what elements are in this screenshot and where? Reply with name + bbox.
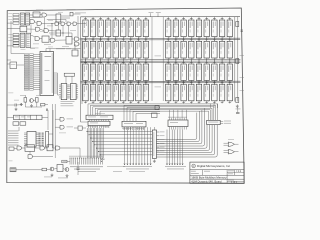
field text scale (228, 169, 234, 172)
bus wire band A (81, 39, 241, 41)
input net label ADR1 (13, 36, 19, 38)
wire (16, 169, 42, 171)
capacitor C21 (236, 112, 240, 114)
DRAM chip U49 (189, 64, 194, 80)
net labels left edge (8, 12, 12, 15)
DRAM chip U40 (105, 64, 110, 80)
wire (51, 24, 53, 39)
wire pin stub (190, 17, 192, 20)
wire (74, 127, 78, 129)
junction node (191, 82, 192, 83)
DRAM chip U45 (143, 64, 148, 80)
net label left margin (9, 160, 13, 163)
wire bundle to J1 (87, 128, 89, 158)
DRAM chip U22 (105, 41, 110, 58)
DRAM chip U46 (166, 64, 171, 80)
wire pin stub (76, 95, 78, 97)
wire (30, 16, 42, 18)
input net label ADR4 (13, 45, 19, 47)
gate U41B (51, 38, 55, 42)
net label above gates (228, 138, 234, 141)
wire (40, 38, 43, 40)
junction node (175, 59, 176, 60)
DRAM chip U55 (83, 84, 88, 101)
pin number label (215, 80, 216, 83)
DRAM chip U21 (98, 41, 103, 58)
pin number label (109, 58, 110, 61)
wire pin stub (100, 17, 102, 20)
gate U74A (155, 106, 159, 110)
wire (49, 30, 57, 32)
net label (21, 48, 26, 51)
wire (7, 45, 13, 47)
DRAM chip U12 (181, 20, 186, 37)
termination resistor tick (190, 61, 193, 63)
net label (62, 45, 69, 48)
wire (150, 13, 152, 17)
termination resistor tick (145, 39, 148, 41)
junction node (175, 82, 176, 83)
wire (49, 49, 51, 52)
pin number label (147, 80, 148, 83)
one-shot U81 (25, 145, 35, 152)
title block row divider (190, 169, 244, 171)
wire (77, 23, 86, 25)
wire pin stub (229, 17, 231, 20)
wire pin stub (130, 81, 132, 84)
capacitor C2 (46, 109, 48, 112)
title block column divider (202, 170, 204, 176)
wire (35, 147, 41, 149)
junction node (123, 82, 124, 83)
wire pin stub (190, 58, 192, 63)
wire pin stubs U71 bottom (88, 126, 90, 129)
wire pin stub (59, 88, 61, 90)
wire pin stub (213, 58, 215, 63)
wire pin stub (229, 81, 231, 84)
wire pin stub (85, 61, 87, 64)
wire pin stub (190, 80, 192, 85)
wire pin stub (76, 86, 78, 88)
wire pin stub (122, 81, 124, 84)
junction node (168, 38, 169, 39)
wire pin stub (137, 17, 139, 20)
caption address comb (126, 168, 149, 171)
wire pin stub (68, 86, 70, 88)
wire pin stub (183, 81, 185, 84)
wire pin stub (229, 61, 231, 64)
diode CR1 (20, 103, 23, 106)
wire pin stub (76, 91, 78, 93)
input net label ADR3 (13, 42, 19, 44)
junction node (206, 59, 207, 60)
wire (61, 17, 71, 19)
or-gate U90B (228, 150, 235, 155)
wire pin stub (167, 38, 169, 41)
flip-flop U82 (47, 145, 53, 151)
input net label BPRN (13, 16, 19, 18)
wire pin stub (122, 38, 124, 41)
pin number label (200, 58, 201, 61)
pin number label (101, 36, 102, 39)
wire pin stub (221, 81, 223, 84)
nested address bus corner wires U70 to U75 (88, 104, 217, 120)
wire (40, 14, 42, 16)
DRAM chip U71 (219, 84, 224, 101)
junction node (115, 38, 116, 39)
small box E5 (152, 113, 158, 118)
wire pin stub (137, 81, 139, 84)
pin number label (139, 36, 140, 39)
wire pin stub (68, 88, 70, 90)
wire (55, 126, 60, 128)
DRAM chip U33 (204, 41, 209, 58)
wire pin stub (145, 101, 147, 104)
pin number label (124, 80, 125, 83)
wire pin stub (68, 95, 70, 97)
wire pin stub (36, 137, 39, 139)
wire (42, 22, 56, 24)
wire pin stub (213, 37, 215, 42)
junction node (108, 59, 109, 60)
wire pin stub (59, 91, 61, 93)
net label BANK0 in gap (155, 55, 162, 58)
wire (36, 102, 38, 107)
DRAM chip U51 (204, 64, 209, 80)
DRAM chip U10 (166, 20, 171, 37)
comparator U42 (42, 36, 49, 42)
wire (26, 32, 28, 33)
termination resistor tick (213, 17, 216, 19)
termination resistor tick (107, 61, 110, 63)
net label CAS (44, 43, 51, 46)
DRAM chip U11 (173, 20, 178, 37)
address buffer U40 (26, 33, 31, 47)
title block column divider (226, 170, 228, 184)
DRAM chip U34 (212, 41, 217, 58)
wire (7, 63, 10, 65)
termination resistor tick (190, 82, 193, 84)
termination resistor tick (190, 39, 193, 41)
wire pin stub (213, 101, 215, 104)
wire (49, 39, 51, 40)
wire (185, 161, 190, 163)
DRAM chip U57 (98, 84, 103, 101)
junction node (115, 82, 116, 83)
DRAM chip U2 (90, 20, 95, 37)
termination resistor tick (182, 17, 185, 19)
wire pin stub (183, 38, 185, 41)
net label (66, 48, 71, 51)
wire pin stub (198, 58, 200, 63)
sheet text (228, 179, 234, 182)
wire pin stub (67, 84, 69, 86)
row buffer U71 (88, 121, 110, 125)
wire pin stub (107, 38, 109, 41)
wire (61, 15, 70, 17)
caption wire list (107, 165, 125, 168)
termination resistor tick (122, 17, 125, 19)
wire (7, 104, 15, 106)
junction node (175, 38, 176, 39)
termination resistor tick (167, 17, 170, 19)
junction node (62, 32, 63, 33)
wire (45, 147, 48, 149)
wire pin stub (85, 81, 87, 84)
net label column for U50 pins (24, 54, 29, 56)
wire (33, 99, 35, 102)
wire pin stub (229, 37, 231, 42)
wire (65, 76, 67, 83)
wire (224, 152, 229, 154)
junction node (183, 38, 184, 39)
node +5V label (236, 108, 241, 111)
DRAM chip U59 (113, 84, 118, 101)
latch U36 (20, 26, 27, 32)
wire pin stub (100, 81, 102, 84)
pin number label (132, 80, 133, 83)
pin number label (147, 36, 148, 39)
wire pin stub (92, 61, 94, 64)
wire pin stub (92, 81, 94, 84)
wire pin stub (85, 17, 87, 20)
wire (81, 121, 88, 123)
wire (71, 76, 73, 83)
termination resistor tick (107, 17, 110, 19)
wire (71, 33, 73, 37)
wire pin stub (206, 80, 208, 85)
junction node (108, 82, 109, 83)
wire pin stub (76, 90, 78, 92)
+5V power rail wire (81, 16, 241, 18)
wire pin stub (36, 139, 39, 141)
net label text under buffers (61, 100, 75, 103)
wire pin stub (145, 17, 147, 20)
svg-text:= 1:1: = 1:1 (236, 171, 242, 173)
wire pin stub (167, 17, 169, 20)
pin number label (86, 100, 87, 103)
wire pin stub (68, 97, 70, 99)
node +5V label (149, 11, 154, 14)
wire pin stub (92, 58, 94, 63)
wire (42, 116, 48, 118)
pin number label (124, 100, 125, 103)
DRAM chip U38 (90, 64, 95, 80)
bus wire band B (81, 59, 241, 61)
wire (77, 162, 79, 168)
termination resistor tick (129, 17, 132, 19)
wire (47, 19, 66, 21)
junction node (214, 38, 215, 39)
termination resistor tick (114, 39, 117, 41)
bus receiver U30 (20, 13, 24, 25)
memory controller U50 (40, 52, 54, 96)
wire pin stub (115, 38, 117, 41)
pin number label (147, 58, 148, 61)
resistor R2 (36, 98, 39, 103)
pin number label (94, 58, 95, 61)
wire (62, 25, 64, 36)
pin number label (94, 100, 95, 103)
termination resistor tick (92, 82, 95, 84)
pin number label (101, 100, 102, 103)
svg-text:4164 Dynamic 64K, Board: 4164 Dynamic 64K, Board (191, 180, 222, 184)
junction node (93, 82, 94, 83)
small box E6 (78, 126, 82, 130)
jumper block W1 (64, 73, 74, 76)
net label (70, 29, 76, 32)
wire (157, 13, 159, 17)
pin number label (177, 80, 178, 83)
wire pin stub (130, 80, 132, 85)
termination resistor tick (221, 82, 224, 84)
wire pin stub (36, 141, 39, 143)
termination resistor tick (145, 61, 148, 63)
net label OSC (67, 8, 76, 11)
wire pin stubs U73 top (169, 110, 171, 121)
net label (44, 176, 52, 179)
wire pin stub (206, 81, 208, 84)
input net label ADR0 (13, 34, 19, 36)
wire (25, 14, 34, 16)
termination resistor tick (145, 82, 148, 84)
wire pin stub (67, 90, 69, 92)
wire (31, 35, 35, 37)
wire pin stub (145, 37, 147, 42)
multiplexer U73 (168, 120, 188, 127)
resistor pack RP2 (46, 132, 49, 148)
wire pin stub (85, 37, 87, 42)
wire pin stub (190, 38, 192, 41)
pin number label (116, 80, 117, 83)
wire pin stub (115, 37, 117, 42)
wire pin stub (167, 37, 169, 42)
pin number label (101, 80, 102, 83)
wire pin stub (183, 37, 185, 42)
junction node (145, 59, 146, 60)
pin number label (109, 36, 110, 39)
pin number label (200, 100, 201, 103)
wire pin stub (76, 97, 78, 99)
resistor R10 (236, 98, 239, 103)
net label under buffer gates (59, 132, 66, 135)
pin number label (184, 36, 185, 39)
wire pin stub (167, 61, 169, 64)
net label (50, 34, 56, 37)
wire pin stub (198, 61, 200, 64)
pin number label (132, 58, 133, 61)
DRAM chip U52 (212, 64, 217, 80)
flip-flop U33 (56, 14, 61, 22)
wire U50 right pins (54, 72, 58, 74)
wire pin stub (122, 37, 124, 42)
gate U44A (75, 37, 79, 41)
net label (36, 94, 41, 97)
DRAM chip U31 (189, 41, 194, 58)
junction node (229, 38, 230, 39)
wire (30, 25, 32, 34)
ground (31, 104, 33, 106)
delay line DL2 (14, 115, 43, 119)
pin number label (139, 80, 140, 83)
wire pin stub (67, 86, 69, 88)
wire pin stub (59, 93, 61, 95)
wire pin stub (206, 17, 208, 20)
termination resistor tick (228, 17, 231, 19)
wire pin stub (36, 132, 39, 134)
wire (59, 23, 61, 25)
data comb wires (166, 130, 168, 166)
ground (236, 105, 238, 107)
net label (36, 9, 43, 12)
wire (25, 106, 42, 108)
wire pin stub (100, 38, 102, 41)
termination resistor tick (129, 39, 132, 41)
junction node (145, 82, 146, 83)
DRAM chip U1 (83, 20, 88, 37)
box E2 (20, 122, 26, 125)
junction node (138, 82, 139, 83)
DRAM chip U28 (166, 41, 171, 58)
wire pin stub (85, 101, 87, 104)
junction node (123, 38, 124, 39)
wire (55, 39, 66, 41)
transistor Q2 (50, 167, 54, 171)
connector J1 pin comb (69, 158, 71, 165)
wire pin stubs DL1 right (157, 131, 160, 133)
nested corner wires to U72 (124, 106, 160, 122)
net labels under U71 (87, 125, 98, 128)
wire pin stub (92, 101, 94, 104)
wire pin stub (76, 88, 78, 90)
termination resistor tick (221, 39, 224, 41)
field text CHK (204, 170, 210, 173)
pin number label (192, 100, 193, 103)
crystal X1 (70, 12, 73, 16)
junction node (214, 82, 215, 83)
wire pin stub (221, 101, 223, 104)
field text DWN (191, 170, 196, 173)
gate U34B (37, 21, 41, 25)
wire pin stub (183, 101, 185, 104)
wire (47, 14, 56, 16)
termination resistor tick (205, 82, 208, 84)
junction node (100, 59, 101, 60)
wire (73, 13, 81, 15)
crystal filter symbol (11, 169, 16, 172)
wire pin stub (175, 101, 177, 104)
wire pin stub (130, 61, 132, 64)
wire pin stub (198, 81, 200, 84)
DRAM chip U37 (83, 64, 88, 80)
termination resistor tick (213, 61, 216, 63)
wire pin stubs U72 bottom (123, 127, 125, 130)
wire (7, 116, 13, 118)
wire pin stub (183, 58, 185, 63)
termination resistor tick (92, 17, 95, 19)
pin number label (177, 100, 178, 103)
pin number label (169, 100, 170, 103)
termination resistor tick (122, 39, 125, 41)
pin number label (86, 36, 87, 39)
termination resistor tick (228, 61, 231, 63)
wire pin stub (24, 139, 27, 141)
wire (27, 28, 36, 30)
wire pin stub (76, 84, 78, 86)
pin number label (116, 36, 117, 39)
pin number label (94, 80, 95, 83)
wire (82, 127, 86, 129)
